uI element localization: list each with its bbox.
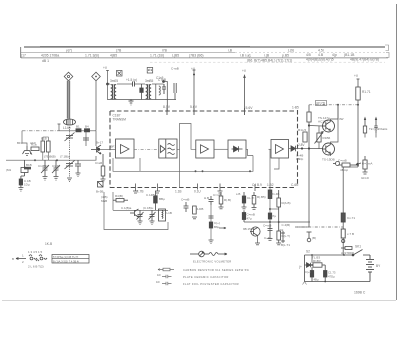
svg-text:i.B i.u(l,: i.B i.u(l, [240, 54, 251, 58]
wire feedback right segment [203, 156, 253, 172]
transistor TS151 [250, 227, 260, 236]
electrolytic C156 x208 [209, 222, 212, 228]
svg-text:y(7): y(7) [66, 48, 72, 52]
ground x208 [209, 240, 214, 244]
svg-text:4.B: 4.B [318, 53, 324, 57]
ground C136 [18, 188, 23, 192]
node C165 junction [162, 80, 165, 83]
node y222 b [278, 221, 280, 223]
wire dashdot y227 [295, 226, 343, 228]
cluster C162 [184, 202, 189, 212]
wire left dashdot corner [22, 131, 27, 146]
label tick mid [244, 108, 246, 115]
dashed box transmitter module C167 [110, 110, 298, 188]
svg-text:B+17: B+17 [96, 141, 103, 145]
wire A3 to A4 [214, 148, 228, 150]
capacitor C144 variable [65, 161, 75, 170]
inductor L151 boxed [159, 209, 166, 221]
resistor legend SK-A top [341, 247, 352, 250]
label tick 5.6 [193, 108, 195, 115]
electrolytic C171 [341, 213, 345, 222]
wire filter bottom rail [108, 84, 177, 100]
node x338 y105 [337, 104, 339, 106]
svg-text:(B): (B) [312, 236, 316, 240]
filter block A2 [159, 139, 177, 158]
ground C151 [150, 221, 155, 225]
ground R156 [252, 208, 257, 210]
ground filter [129, 100, 134, 106]
resistor R183 box [313, 263, 325, 267]
resistor R141 small [76, 129, 81, 132]
transistor TR1 arrow [363, 117, 366, 134]
wire dash-dot tuning link left [22, 130, 59, 132]
node TP2 diamond [92, 72, 101, 81]
node battery a [311, 254, 313, 256]
resistor R153 [219, 192, 223, 207]
svg-text:R17D: R17D [317, 102, 326, 106]
electrolytic C148B [154, 191, 158, 210]
wire x208 vertical [210, 205, 212, 240]
earphone jack [307, 232, 312, 242]
node x309 y125 [308, 124, 310, 126]
svg-text:L(B5: L(B5 [172, 54, 179, 58]
wire x343 long vertical [342, 167, 344, 243]
cluster C16B area [338, 163, 358, 167]
svg-text:B6µ: B6µ [214, 225, 220, 229]
svg-text:Tk=(+)9Vbatts: Tk=(+)9Vbatts [369, 127, 388, 131]
battery BY [366, 255, 374, 282]
wire lower-left return loop [104, 192, 168, 230]
svg-text:+1.5 (p): +1.5 (p) [126, 78, 137, 82]
battery bottom rail [305, 255, 371, 282]
svg-text:3W: 3W [339, 117, 344, 121]
connector pin table [52, 255, 89, 264]
svg-text:TS-15DB: TS-15DB [322, 158, 335, 162]
svg-text:1.7B: 1.7B [137, 190, 144, 194]
svg-text:R-DB: R-DB [196, 207, 203, 211]
resistor R162 [193, 206, 197, 214]
connector SK-B contacts [29, 255, 47, 261]
svg-text:ALSTRDR: ALSTRDR [341, 251, 354, 255]
wire supply drop 8.5V [164, 82, 168, 111]
resistor R173 vertical [363, 156, 367, 172]
legend resistor symbol [158, 268, 174, 271]
wire x96 drop to transistor [95, 131, 97, 146]
node +V mark [193, 74, 195, 76]
wire x358 down [357, 165, 359, 167]
wire x309 bottom join [297, 226, 309, 228]
transformer T161 [146, 84, 152, 100]
transistor TS147 [323, 120, 335, 132]
wire gang dotted vertical [69, 127, 71, 178]
transistor TS141 [91, 145, 101, 154]
ground under C159 [268, 235, 273, 240]
wire R132 to bus [43, 137, 49, 160]
svg-text:S2: S2 [306, 250, 310, 254]
wire y222 bus [244, 221, 310, 223]
transistor TS140 [23, 146, 32, 155]
svg-text:SK1: SK1 [355, 245, 361, 249]
svg-text:BBµ: BBµ [159, 197, 165, 201]
node input dot [97, 148, 100, 151]
svg-text:C1a5: C1a5 [95, 161, 103, 165]
wire A5 side L [274, 158, 279, 169]
op-amp block A1 [116, 139, 135, 158]
variable resistor R166 [315, 132, 324, 144]
label R170 boxed [316, 101, 327, 106]
wire connector arrow left [16, 258, 26, 260]
node fb2 [202, 170, 204, 172]
svg-text:s.B: s.B [236, 192, 240, 196]
svg-text:1.1B: 1.1B [175, 190, 182, 194]
electrolytic C148 [242, 192, 245, 207]
svg-text:R1B6: R1B6 [323, 136, 331, 140]
electrolytic C172 [310, 267, 313, 281]
node y160 a [34, 159, 36, 161]
ground R153 [219, 207, 224, 209]
svg-text:Cx.71: Cx.71 [347, 216, 355, 220]
ground C148 [242, 207, 247, 209]
svg-text:(B1.1B: (B1.1B [344, 53, 355, 57]
svg-text:i7B: i7B [162, 48, 168, 52]
wire long vertical x179 [179, 149, 181, 187]
electrolytic C157 [268, 213, 271, 219]
capacitor C166 column [174, 83, 176, 100]
ground C138 [43, 177, 48, 181]
wire shielded drop from TP1 [67, 81, 69, 119]
svg-text:C-6R: C-6R [291, 183, 299, 187]
svg-text:2 L 6 B T(2): 2 L 6 B T(2) [28, 265, 44, 269]
node +V top left [106, 70, 109, 84]
page frame bottom edge [2, 300, 396, 302]
wire y209 cross [270, 208, 279, 210]
title table left border [20, 47, 22, 58]
arrow right small [219, 227, 226, 229]
svg-text:4(p: 4(p [332, 53, 337, 57]
svg-text:47Dµ: 47Dµ [328, 275, 335, 279]
ground x196 [192, 217, 197, 219]
wire preamp bus y160 [6, 159, 86, 161]
ground R173 [363, 172, 368, 174]
label D 1mA arrow [356, 163, 361, 165]
svg-text:R(.B): R(.B) [224, 198, 231, 202]
ground R144 [101, 179, 106, 183]
svg-text:1.71 3(B): 1.71 3(B) [85, 54, 99, 58]
svg-text:1 3 4 5 1 5: 1 3 4 5 1 5 [28, 250, 43, 254]
svg-text:C4 B.9: C4 B.9 [252, 183, 262, 187]
wire tick x197 [197, 184, 199, 190]
svg-text:C1s5: C1s5 [156, 76, 164, 80]
svg-text:FLAT FOIL POLYESTER CAPACITOR: FLAT FOIL POLYESTER CAPACITOR [183, 282, 239, 286]
wire feedback lower A1-A3 [113, 158, 203, 171]
table row C text [42, 58, 379, 63]
node fb3 [249, 170, 251, 172]
wire TS150 collector [331, 105, 339, 145]
wire riser x59 [58, 124, 61, 131]
svg-text:(7B3 (B6): (7B3 (B6) [189, 54, 204, 58]
svg-text:R1s.5: R1s.5 [298, 128, 306, 132]
transistor TR2 arrow [374, 117, 377, 134]
capacitor C150 variable [137, 210, 144, 221]
resistor R133 vertical [47, 141, 51, 152]
svg-text:C=mB: C=mB [181, 198, 189, 202]
svg-text:x.7 B: x.7 B [347, 232, 354, 236]
svg-text:1Dµ: 1Dµ [24, 183, 30, 187]
svg-text:D=1mA: D=1mA [362, 162, 373, 166]
node 2.8V dot [301, 147, 303, 149]
svg-text:(7B)B(B): (7B)B(B) [44, 155, 56, 159]
svg-text:9B.157B: 9B.157B [243, 227, 255, 231]
resistor R146 h [113, 199, 128, 202]
wire x113 drop [112, 192, 114, 210]
transistor TS150 [323, 143, 335, 155]
capacitor C141 variable [65, 133, 75, 142]
battery circuit top rail [305, 254, 353, 256]
ground TS151 [255, 243, 260, 245]
resistor R169 [303, 132, 307, 142]
tick x255 on dashes [254, 184, 256, 191]
svg-text:47µ: 47µ [247, 217, 252, 221]
ground gang [67, 178, 72, 182]
svg-text:4Bmp: 4Bmp [340, 168, 348, 172]
table row A text [66, 48, 324, 52]
wire lower bus y210 [113, 209, 168, 211]
svg-text:dB 1: dB 1 [42, 59, 49, 63]
svg-text:L1B: L1B [167, 211, 172, 215]
svg-text:5.6V: 5.6V [246, 106, 254, 110]
resistor R156 [252, 192, 256, 208]
node fb1 [195, 170, 197, 172]
svg-text:169B C: 169B C [354, 291, 366, 295]
capacitor H.B x211 [209, 196, 214, 205]
wire shielded drop from TP2 [95, 81, 97, 131]
title table mid rule 1 [21, 52, 235, 54]
resistor R134 dark bar [24, 167, 31, 170]
svg-text:TRANSM: TRANSM [113, 118, 127, 122]
ground under dashed box tick1 [133, 184, 138, 194]
svg-text:R1B3: R1B3 [313, 259, 321, 263]
label R2 tick [166, 108, 168, 115]
page frame right edge [396, 4, 398, 300]
svg-text:R(.B5): R(.B5) [257, 195, 266, 199]
node battery b [343, 254, 345, 256]
diode D output [291, 146, 296, 151]
ground C139 [54, 177, 59, 181]
svg-text:4(B5: 4(B5 [110, 54, 117, 58]
wire C172 top [311, 255, 313, 263]
title table faint rule 3 [150, 61, 385, 63]
svg-text:4Bµ: 4Bµ [314, 278, 319, 282]
node TP1 diamond [64, 72, 73, 81]
svg-text:4.5l: 4.5l [318, 48, 324, 52]
wire filter top rail [108, 83, 164, 85]
svg-text:B1: B1 [76, 125, 80, 129]
resistor R158 dark [268, 190, 272, 199]
wire antenna tap bus y131 [59, 130, 96, 132]
microphone MIC box [21, 160, 28, 176]
table row B text [21, 53, 355, 58]
svg-text:C+aB: C+aB [171, 67, 179, 71]
wire supply drop 5.6V [193, 70, 196, 111]
svg-text:L(9): L(9) [288, 48, 294, 52]
ground C150 [138, 221, 143, 225]
svg-text:10¹: 10¹ [156, 280, 160, 284]
svg-text:B.(1)A.3-3(2) 7.4.3B.4(: B.(1)A.3-3(2) 7.4.3B.4( [53, 259, 79, 263]
ground tick bottom left [303, 282, 307, 285]
electrolytic C158 [242, 210, 245, 222]
capacitor C146 [83, 138, 89, 140]
electrolytic C173 [324, 265, 327, 282]
svg-text:C.1(B)a: C.1(B)a [121, 206, 132, 210]
wire TR pair joins [365, 133, 376, 138]
wire into A5 stub [269, 148, 272, 150]
svg-text:GN-D: GN-D [361, 176, 370, 180]
title table right bracket [385, 45, 389, 58]
capacitor C163 shunt electrolytic [140, 84, 143, 100]
capacitor C159 [268, 224, 273, 235]
svg-text:B(L.T1: B(L.T1 [281, 243, 290, 247]
svg-text:(+: (+ [299, 265, 302, 269]
svg-text:BF1: BF1 [17, 141, 23, 145]
svg-text:C=mB: C=mB [263, 224, 271, 228]
ground tick2 [155, 184, 160, 194]
node x358 y165 [357, 164, 359, 166]
shield symbol box 1 [117, 71, 123, 77]
wire x358-x343 join [343, 166, 358, 168]
svg-text:B1B: B1B [26, 163, 32, 167]
svg-text:C.14B(+): C.14B(+) [146, 193, 158, 197]
svg-text:CL.TI: CL.TI [247, 196, 255, 200]
node circle x343 [342, 239, 345, 242]
capacitor C165 [162, 84, 166, 94]
svg-text:R1.71: R1.71 [362, 90, 371, 94]
wire supply x358 [357, 79, 360, 167]
node x309 y148 [308, 147, 310, 149]
capacitor C162 series [133, 82, 135, 87]
svg-text:C+D+: C+D+ [264, 236, 272, 240]
resistor R171 [356, 87, 360, 100]
svg-text:C(+2: C(+2 [305, 270, 312, 274]
wire drop from A5 input [269, 149, 271, 230]
svg-text:R4(B): R4(B) [115, 194, 123, 198]
capacitor C142 pair [75, 160, 81, 173]
switch SK1 [352, 250, 370, 256]
op-amp block A5 [271, 140, 289, 159]
resistor R160 [277, 222, 281, 240]
svg-text:2.8V: 2.8V [298, 143, 305, 147]
svg-text:BF1: BF1 [111, 145, 117, 149]
svg-text:C.4(B): C.4(B) [282, 223, 291, 227]
node y160 b [56, 159, 58, 161]
svg-text:R1a: R1a [31, 143, 37, 147]
wire TS147 collector right [331, 105, 339, 122]
svg-text:1.71 (1B): 1.71 (1B) [150, 54, 164, 58]
svg-text:4/5: 4/5 [306, 53, 311, 57]
svg-text:3mB5: 3mB5 [145, 79, 154, 83]
ground C142 [76, 173, 81, 177]
svg-text:B+5B: B+5B [96, 190, 103, 194]
wire input to A1 [97, 148, 116, 150]
svg-text:B4: B4 [85, 125, 89, 129]
wire emitter bus [86, 156, 96, 160]
wire supply arrow +V mid [243, 74, 246, 111]
svg-text:4B(9).47(B4) B(7B): 4B(9).47(B4) B(7B) [350, 58, 379, 62]
svg-text:3m05: 3m05 [110, 79, 118, 83]
legend foil cap symbol [162, 282, 172, 285]
svg-text:57 0PSa (1)=45 TU.Tl: 57 0PSa (1)=45 TU.Tl [53, 255, 79, 259]
wire R166 connections [309, 126, 323, 149]
resistor R142 small [85, 129, 90, 132]
antenna coil L140 [64, 119, 76, 125]
svg-text:0.1U: 0.1U [194, 190, 201, 194]
svg-text:4B5.B4(.) (7(1).17(1): 4B5.B4(.) (7(1).17(1) [261, 58, 292, 62]
svg-text:(7.1B)a: (7.1B)a [60, 155, 70, 159]
svg-text:PLATE CERAMIC CAPACITOR: PLATE CERAMIC CAPACITOR [183, 275, 229, 279]
wire C171 chain to rail [342, 243, 344, 255]
wire A2 to A3 elevated [177, 124, 196, 150]
title table mid rule 2 [21, 57, 388, 59]
wire dashdot y105 [309, 104, 358, 106]
svg-text:R1.4B: R1.4B [271, 192, 279, 196]
resistor R174 [341, 229, 345, 238]
resistor R132 vertical [41, 141, 45, 152]
svg-text:1-B5: 1-B5 [292, 106, 299, 110]
svg-text:MaB: MaB [101, 199, 107, 203]
diode D162 [305, 263, 313, 268]
svg-text:(M1: (M1 [6, 168, 11, 172]
svg-text:ELECTRONIC VOLMETER: ELECTRONIC VOLMETER [193, 260, 232, 264]
inductor L165 [156, 84, 161, 100]
electronic voltmeter symbol [190, 251, 227, 257]
node x268 y209 [269, 208, 271, 210]
wire A1 to A2 dashdot [134, 148, 159, 150]
wire A5 output diode [289, 148, 310, 150]
transformer T160 [111, 84, 117, 100]
svg-text:p.B5: p.B5 [282, 54, 289, 58]
svg-text:R(A.B): R(A.B) [282, 201, 291, 205]
svg-text:1.B2: 1.B2 [267, 183, 274, 187]
svg-text:H.B: H.B [204, 196, 209, 200]
node y222 a [269, 221, 271, 223]
wire A4 output jog down [246, 149, 253, 155]
diode block A4 [228, 140, 246, 158]
svg-text:CARBON RESISTOR 611 SERIES 1E5: CARBON RESISTOR 611 SERIES 1E5W 5% [183, 268, 249, 272]
svg-text:1Dk: 1Dk [278, 228, 284, 232]
speaker jack symbol [333, 162, 340, 166]
wire TS151 emitter ground [257, 236, 259, 244]
capacitor C139 variable [52, 160, 60, 176]
resistor R144 vertical [101, 154, 105, 179]
resistor R131 [31, 147, 39, 151]
svg-text:4205 170Ba: 4205 170Ba [41, 54, 59, 58]
wire TS150 emitter down [330, 154, 332, 157]
volume pot SK-A [281, 231, 285, 243]
svg-text:(7B: (7B [116, 48, 122, 52]
node battery c [324, 281, 326, 283]
shield symbol box 2 [147, 68, 153, 74]
svg-text:(17: (17 [21, 54, 26, 58]
title table top border [24, 46, 385, 48]
svg-text:B: B [12, 257, 14, 261]
svg-text:(B6. B(7): (B6. B(7) [247, 58, 261, 62]
wire x86 drop [85, 131, 87, 146]
crystal X140 box [98, 182, 104, 188]
svg-text:i.(B: i.(B [264, 54, 270, 58]
capacitor C138 variable [41, 160, 49, 176]
svg-text:C=mB: C=mB [338, 159, 347, 163]
resistor R159 [277, 190, 281, 222]
svg-text:1K-B: 1K-B [45, 242, 52, 246]
